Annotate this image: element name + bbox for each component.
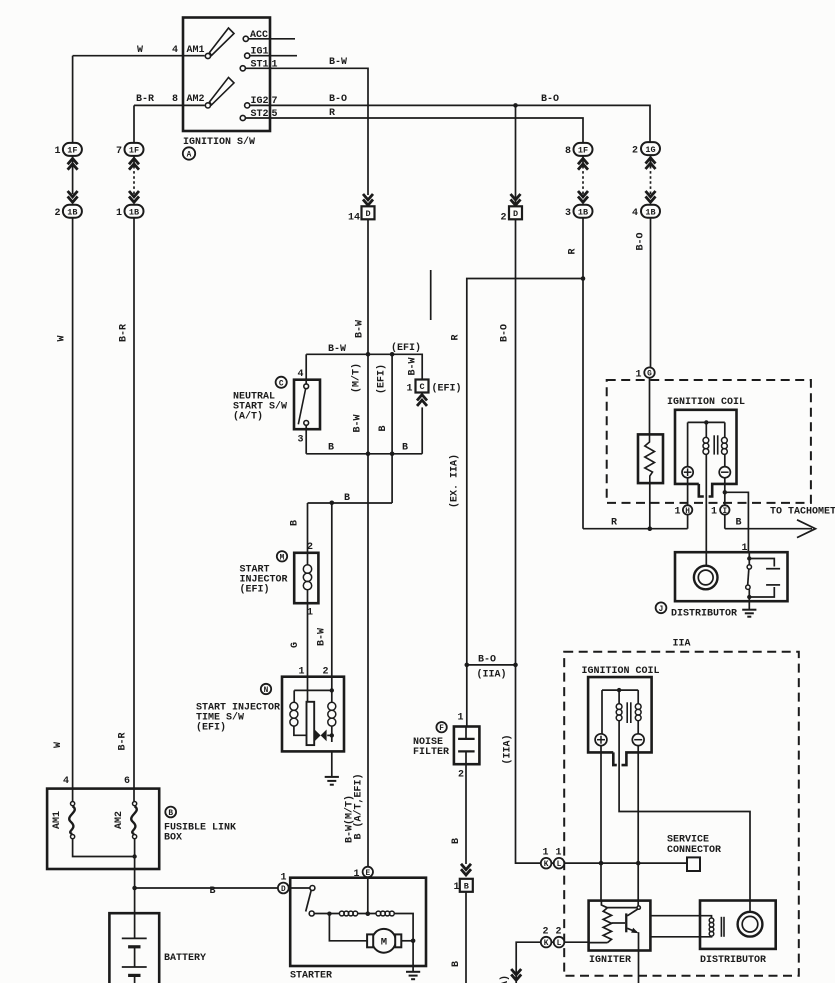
svg-text:B: B [210, 886, 216, 897]
svg-text:B-W: B-W [408, 357, 419, 375]
svg-text:(IIA): (IIA) [502, 734, 514, 764]
svg-text:1: 1 [555, 848, 561, 859]
svg-text:1F: 1F [129, 146, 139, 156]
svg-text:R: R [451, 334, 462, 340]
svg-text:D: D [513, 209, 518, 219]
svg-text:B-W: B-W [317, 628, 328, 646]
svg-text:IGNITION S/W: IGNITION S/W [183, 136, 255, 148]
svg-text:B (A/T,EFI): B (A/T,EFI) [353, 773, 365, 839]
svg-text:BOX: BOX [164, 833, 182, 844]
svg-text:TO TACHOMETER: TO TACHOMETER [770, 507, 835, 518]
svg-text:1: 1 [542, 848, 548, 859]
svg-text:2: 2 [501, 213, 507, 224]
svg-text:B-W: B-W [329, 57, 347, 68]
svg-text:1F: 1F [67, 146, 77, 156]
svg-text:J: J [659, 606, 664, 614]
svg-text:N: N [264, 687, 269, 695]
svg-text:1: 1 [407, 384, 413, 395]
svg-text:IGNITER: IGNITER [589, 955, 631, 966]
svg-text:1: 1 [307, 608, 313, 619]
svg-text:(EFI): (EFI) [196, 722, 226, 734]
svg-text:B-W: B-W [355, 320, 366, 338]
svg-text:D: D [281, 886, 286, 894]
svg-text:B: B [344, 493, 350, 504]
svg-text:1B: 1B [129, 207, 139, 217]
svg-text:1: 1 [742, 543, 748, 554]
svg-text:D: D [365, 209, 370, 219]
svg-text:A: A [187, 152, 192, 160]
svg-text:14: 14 [348, 213, 360, 224]
svg-text:(EFI): (EFI) [432, 383, 462, 395]
svg-text:4: 4 [632, 208, 638, 219]
svg-text:R: R [329, 108, 335, 119]
svg-text:B-R: B-R [119, 324, 130, 342]
svg-text:2: 2 [458, 770, 464, 781]
svg-text:FILTER: FILTER [413, 747, 449, 758]
svg-text:F: F [439, 725, 444, 733]
svg-text:2: 2 [632, 145, 638, 156]
svg-text:AM2: AM2 [187, 94, 205, 105]
svg-text:IGNITION COIL: IGNITION COIL [667, 397, 745, 408]
svg-text:B-O: B-O [329, 94, 347, 105]
svg-text:2: 2 [542, 927, 548, 938]
svg-text:7: 7 [272, 96, 278, 107]
svg-text:B: B [402, 443, 408, 454]
svg-text:2: 2 [323, 667, 329, 678]
svg-text:1: 1 [454, 882, 460, 893]
svg-text:B: B [451, 838, 462, 844]
svg-text:(M/T): (M/T) [351, 363, 363, 393]
svg-text:ST1: ST1 [251, 60, 269, 71]
svg-text:(EFI): (EFI) [391, 342, 421, 354]
svg-text:B-W: B-W [353, 414, 364, 432]
svg-text:1: 1 [675, 507, 681, 518]
svg-text:B-O: B-O [541, 94, 559, 105]
svg-text:1B: 1B [67, 207, 77, 217]
svg-text:SERVICE: SERVICE [667, 835, 709, 846]
svg-text:B: B [328, 443, 334, 454]
svg-text:3: 3 [565, 208, 571, 219]
svg-text:CONNECTOR: CONNECTOR [667, 845, 721, 856]
svg-text:M: M [381, 937, 387, 949]
svg-text:DISTRIBUTOR: DISTRIBUTOR [700, 955, 766, 966]
svg-text:AM2: AM2 [114, 811, 125, 829]
svg-text:B: B [451, 961, 462, 967]
svg-text:2: 2 [555, 927, 561, 938]
svg-text:M: M [280, 554, 285, 562]
svg-text:IGNITION COIL: IGNITION COIL [582, 666, 660, 677]
svg-text:1: 1 [458, 713, 464, 724]
svg-text:1B: 1B [578, 207, 588, 217]
svg-text:IIA: IIA [673, 639, 691, 650]
svg-text:G: G [647, 371, 652, 379]
svg-text:8: 8 [172, 94, 178, 105]
svg-text:B: B [378, 425, 389, 431]
svg-text:R: R [568, 248, 579, 254]
svg-text:2: 2 [55, 208, 61, 219]
svg-text:B-O: B-O [636, 232, 647, 250]
svg-text:I: I [722, 508, 727, 516]
svg-text:IG1: IG1 [251, 47, 269, 58]
svg-text:2: 2 [307, 542, 313, 553]
svg-text:6: 6 [124, 776, 130, 787]
svg-text:W: W [53, 742, 64, 748]
svg-text:K: K [544, 861, 549, 869]
svg-text:1: 1 [711, 507, 717, 518]
svg-text:(EX. IIA): (EX. IIA) [449, 454, 461, 508]
svg-text:1: 1 [636, 370, 642, 381]
svg-text:1G: 1G [645, 145, 655, 155]
svg-text:(EFI): (EFI) [376, 364, 388, 394]
svg-text:E: E [365, 870, 370, 878]
svg-text:W: W [57, 335, 68, 341]
svg-text:B: B [290, 520, 301, 526]
svg-text:STARTER: STARTER [290, 971, 332, 982]
svg-text:B: B [168, 810, 173, 818]
svg-text:5: 5 [272, 109, 278, 120]
svg-text:1: 1 [354, 869, 360, 880]
svg-text:(EFI): (EFI) [240, 584, 270, 596]
svg-text:(IIA): (IIA) [499, 975, 511, 983]
svg-text:IG2: IG2 [251, 96, 269, 107]
svg-text:1: 1 [116, 208, 122, 219]
svg-text:G: G [290, 642, 301, 648]
svg-text:7: 7 [116, 146, 122, 157]
svg-text:1: 1 [299, 667, 305, 678]
svg-text:1F: 1F [578, 146, 588, 156]
svg-text:B-R: B-R [136, 94, 154, 105]
svg-text:3: 3 [298, 435, 304, 446]
svg-text:8: 8 [565, 146, 571, 157]
svg-text:AM1: AM1 [187, 45, 205, 56]
svg-text:C: C [419, 382, 424, 392]
svg-text:AM1: AM1 [52, 811, 63, 829]
svg-text:B: B [736, 518, 742, 529]
svg-text:H: H [685, 508, 690, 516]
svg-text:B-W: B-W [328, 344, 346, 355]
svg-text:1: 1 [55, 146, 61, 157]
svg-text:B: B [464, 882, 469, 892]
svg-text:B-R: B-R [118, 732, 129, 750]
svg-text:4: 4 [63, 776, 69, 787]
svg-text:B-O: B-O [478, 655, 496, 666]
svg-text:L: L [557, 940, 562, 948]
svg-text:1: 1 [281, 873, 287, 884]
svg-text:K: K [544, 940, 549, 948]
svg-text:B-O: B-O [500, 324, 511, 342]
svg-text:R: R [611, 518, 617, 529]
svg-text:L: L [557, 861, 562, 869]
svg-text:4: 4 [172, 45, 178, 56]
svg-text:(IIA): (IIA) [477, 669, 507, 681]
svg-text:BATTERY: BATTERY [164, 953, 206, 964]
svg-text:DISTRIBUTOR: DISTRIBUTOR [671, 609, 737, 620]
svg-text:ST2: ST2 [251, 109, 269, 120]
svg-text:1B: 1B [645, 207, 655, 217]
svg-text:1: 1 [272, 60, 278, 71]
svg-text:C: C [279, 380, 284, 388]
svg-text:4: 4 [298, 369, 304, 380]
svg-text:ACC: ACC [250, 30, 268, 41]
svg-text:W: W [137, 45, 143, 56]
svg-text:(A/T): (A/T) [233, 411, 263, 423]
